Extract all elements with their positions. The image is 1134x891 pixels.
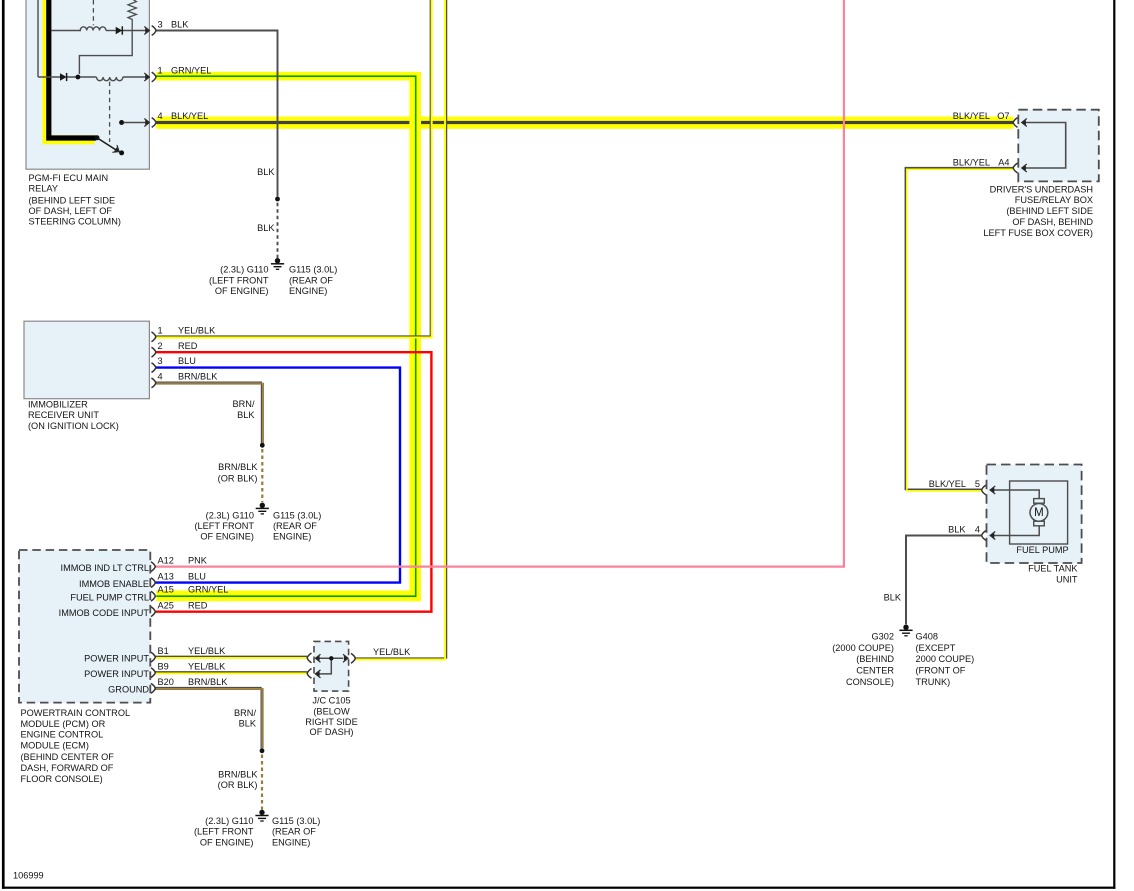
svg-text:(REAR OF: (REAR OF — [273, 521, 317, 531]
svg-text:BRN/BLK: BRN/BLK — [218, 462, 258, 472]
svg-text:MODULE (ECM): MODULE (ECM) — [21, 741, 89, 751]
svg-text:A12: A12 — [158, 555, 174, 565]
immobilizer pin 4 label — [158, 372, 219, 382]
svg-text:BLK: BLK — [171, 20, 189, 30]
immobilizer pin 2 connector — [152, 347, 156, 357]
svg-text:CONSOLE): CONSOLE) — [846, 677, 894, 687]
svg-text:G408: G408 — [916, 632, 938, 642]
PCM pin A12 label — [158, 555, 208, 565]
relay pin 1 label — [158, 66, 212, 76]
svg-text:4: 4 — [975, 524, 980, 534]
PCM pin A15 label — [158, 585, 229, 595]
wire RED: immobilizer pin 2 to PCM A25 — [155, 352, 431, 612]
immobilizer pin 2 label — [158, 341, 198, 351]
diode D1 (relay top) — [116, 26, 123, 34]
coil L2 (relay lower coil) — [97, 77, 123, 81]
svg-text:FUEL TANK: FUEL TANK — [1028, 564, 1078, 574]
junction node on immobilizer BRN/BLK — [260, 443, 265, 448]
relay name label — [29, 173, 121, 227]
immobilizer pin 1 connector — [152, 332, 156, 342]
svg-text:G115 (3.0L): G115 (3.0L) — [289, 265, 337, 275]
svg-text:G115 (3.0L): G115 (3.0L) — [272, 816, 320, 826]
diagram number label — [13, 871, 44, 881]
svg-text:BLU: BLU — [178, 356, 196, 366]
svg-text:STEERING COLUMN): STEERING COLUMN) — [29, 217, 121, 227]
svg-text:(EXCEPT: (EXCEPT — [916, 643, 956, 653]
PCM pin B1 label — [158, 646, 227, 656]
wire BLK: fuel pump pin 4 down to ground G302/G408 — [906, 536, 981, 625]
svg-text:(LEFT FRONT: (LEFT FRONT — [209, 275, 269, 285]
ground label G302 — [832, 632, 894, 687]
svg-text:106999: 106999 — [13, 871, 44, 881]
wire label BRN/BLK (OR BLK) (PCM) — [218, 769, 259, 790]
PCM pin A13 label — [158, 571, 206, 581]
fuel pump pin 4 label — [948, 524, 980, 534]
svg-text:(BEHIND LEFT SIDE: (BEHIND LEFT SIDE — [29, 196, 116, 206]
PCM pin B9 label — [158, 661, 227, 671]
svg-text:POWER INPUT: POWER INPUT — [84, 669, 149, 679]
immobilizer name label — [28, 400, 119, 431]
svg-text:(BEHIND CENTER OF: (BEHIND CENTER OF — [21, 752, 115, 762]
driver's underdash fuse/relay box (dashed) — [1018, 110, 1099, 182]
svg-text:1: 1 — [158, 66, 163, 76]
svg-text:(LEFT FRONT: (LEFT FRONT — [194, 521, 254, 531]
fuse box internal wire — [1023, 123, 1066, 169]
svg-text:4: 4 — [158, 372, 163, 382]
wire BLU: immobilizer pin 3 to PCM A13 — [155, 368, 400, 583]
dashed armature link (top coil) — [92, 0, 94, 25]
svg-text:BLK/YEL: BLK/YEL — [953, 111, 990, 121]
svg-text:OF ENGINE): OF ENGINE) — [200, 532, 254, 542]
svg-text:CENTER: CENTER — [856, 666, 894, 676]
fuel pump pin 4 connector and arrow — [982, 531, 996, 541]
wire BLK: relay pin 3 down to junction — [156, 31, 278, 197]
wire label YEL/BLK (right of C105) — [373, 647, 411, 657]
svg-text:TRUNK): TRUNK) — [916, 677, 951, 687]
svg-text:(ON IGNITION LOCK): (ON IGNITION LOCK) — [28, 421, 119, 431]
ground label G110 (immobilizer) — [194, 510, 254, 541]
svg-text:RIGHT SIDE: RIGHT SIDE — [305, 717, 357, 727]
svg-text:BLK/YEL: BLK/YEL — [929, 479, 966, 489]
fuel pump motor M — [990, 490, 1048, 536]
ground label G115 (PCM) — [272, 816, 320, 848]
svg-text:A25: A25 — [158, 601, 174, 611]
wire YEL/BLK: immobilizer pin 1 up to top of page — [156, 0, 432, 338]
wire label BRN/BLK (immobilizer, split) — [233, 399, 256, 420]
svg-text:(LEFT FRONT: (LEFT FRONT — [194, 827, 254, 837]
PCM pin B1 connector — [151, 652, 155, 662]
immobilizer pin 1 label — [158, 325, 217, 335]
ground label G110 (relay) — [209, 265, 269, 296]
svg-text:RED: RED — [188, 601, 208, 611]
PCM pin A13 connector — [151, 578, 155, 588]
svg-text:B1: B1 — [158, 646, 169, 656]
svg-text:UNIT: UNIT — [1056, 575, 1078, 585]
svg-text:A15: A15 — [158, 585, 174, 595]
wire label BLK (upper) — [257, 167, 275, 177]
resistor (relay, top, cut off) — [128, 0, 136, 31]
wire label BLK (fuel pump) — [884, 592, 902, 602]
svg-text:OF DASH): OF DASH) — [310, 727, 354, 737]
relay pin 3 arrow and connector — [144, 26, 156, 36]
svg-text:GRN/YEL: GRN/YEL — [188, 585, 228, 595]
wire BLK dashed segment to ground G110/G115 — [277, 203, 279, 258]
svg-text:4: 4 — [158, 111, 163, 121]
ground G302/G408 (fuel pump BLK) — [899, 625, 912, 636]
PCM pin A15 connector — [151, 591, 155, 601]
PCM pin function labels — [59, 563, 150, 695]
svg-text:(2.3L) G110: (2.3L) G110 — [220, 265, 268, 275]
relay pin 3 label — [158, 20, 190, 30]
svg-text:BRN/BLK: BRN/BLK — [218, 769, 258, 779]
fuel pump pin 5 connector and arrow — [982, 485, 996, 495]
J/C C105 internal wires and junction — [315, 656, 343, 674]
svg-text:ENGINE): ENGINE) — [289, 286, 327, 296]
svg-text:A13: A13 — [158, 571, 174, 581]
svg-text:(OR BLK): (OR BLK) — [218, 780, 258, 790]
svg-text:BRN/: BRN/ — [234, 708, 256, 718]
svg-text:DASH, FORWARD OF: DASH, FORWARD OF — [21, 763, 114, 773]
wire BRN/BLK: immobilizer pin 4 down to junction — [155, 382, 263, 444]
svg-text:RELAY: RELAY — [29, 184, 58, 194]
svg-text:OF ENGINE): OF ENGINE) — [215, 286, 269, 296]
wire relay pin3 line — [52, 30, 146, 32]
svg-text:2: 2 — [158, 341, 163, 351]
svg-text:DRIVER'S UNDERDASH: DRIVER'S UNDERDASH — [990, 184, 1093, 194]
ground G110/G115 (immobilizer BRN/BLK) — [256, 503, 269, 514]
svg-text:FUEL PUMP CTRL: FUEL PUMP CTRL — [70, 593, 149, 603]
PCM pin A12 connector — [151, 562, 155, 572]
diode D2 (relay lower) — [60, 73, 67, 81]
svg-text:GROUND: GROUND — [108, 685, 149, 695]
svg-text:RED: RED — [178, 341, 198, 351]
ground label G115 (relay) — [289, 265, 337, 296]
svg-text:M: M — [1034, 507, 1044, 519]
PCM pin B20 connector — [151, 683, 155, 693]
wire label BLK (lower) — [257, 223, 275, 233]
ground G110/G115 (relay BLK) — [271, 258, 284, 269]
svg-text:POWERTRAIN CONTROL: POWERTRAIN CONTROL — [21, 708, 131, 718]
svg-text:OF ENGINE): OF ENGINE) — [200, 838, 254, 848]
svg-text:3: 3 — [158, 356, 163, 366]
svg-text:(OR BLK): (OR BLK) — [218, 474, 258, 484]
junction node on relay BLK — [275, 197, 280, 202]
ground G110/G115 (PCM BRN/BLK) — [255, 810, 268, 821]
svg-text:OF DASH, LEFT OF: OF DASH, LEFT OF — [29, 206, 113, 216]
wire BRN/BLK dashed segment to ground G110/G115 (lower) — [261, 755, 263, 810]
svg-text:BLU: BLU — [188, 571, 206, 581]
junction node on PCM BRN/BLK — [260, 748, 265, 753]
wire relay pin1 line — [38, 76, 145, 78]
fuel pump box — [1010, 481, 1068, 544]
fuse box name label — [983, 184, 1093, 238]
relay switch S1 — [95, 120, 146, 155]
wire label BRN/BLK (PCM, split) — [234, 708, 257, 728]
PCM/ECM box (dashed) — [19, 550, 150, 703]
svg-text:POWER INPUT: POWER INPUT — [84, 653, 149, 663]
J/C C105 right pin connector and arrow — [343, 653, 355, 663]
svg-text:IMMOB ENABLE: IMMOB ENABLE — [79, 579, 149, 589]
svg-text:(2.3L) G110: (2.3L) G110 — [206, 510, 254, 520]
svg-text:B20: B20 — [158, 677, 174, 687]
svg-text:B9: B9 — [158, 661, 169, 671]
svg-text:ENGINE CONTROL: ENGINE CONTROL — [21, 730, 104, 740]
fuse box pin A4 label — [953, 158, 1010, 168]
svg-text:5: 5 — [975, 479, 980, 489]
PCM pin A25 connector — [151, 607, 155, 617]
dashed armature link (lower coil) — [109, 82, 111, 142]
svg-text:YEL/BLK: YEL/BLK — [188, 646, 226, 656]
junction node on relay pin1 line — [76, 75, 81, 80]
ground label G110 (PCM) — [194, 816, 254, 848]
svg-text:(BELOW: (BELOW — [313, 706, 350, 716]
wire BLK/YEL thick inside relay — [47, 0, 96, 140]
ground label G115 (immobilizer) — [273, 510, 321, 541]
svg-text:YEL/BLK: YEL/BLK — [178, 325, 216, 335]
J/C C105 left pin (B1) connector and arrow — [307, 653, 320, 663]
svg-text:(FRONT OF: (FRONT OF — [916, 666, 966, 676]
immobilizer receiver unit box — [24, 321, 149, 399]
relay pin 1 arrow and connector — [144, 72, 156, 82]
relay box PGM-FI ECU MAIN RELAY — [26, 0, 149, 169]
PCM pin B9 connector — [151, 668, 155, 678]
svg-text:(BEHIND LEFT SIDE: (BEHIND LEFT SIDE — [1006, 206, 1093, 216]
svg-text:RECEIVER UNIT: RECEIVER UNIT — [28, 410, 99, 420]
svg-text:(2.3L) G110: (2.3L) G110 — [205, 816, 253, 826]
svg-text:IMMOB IND LT CTRL: IMMOB IND LT CTRL — [61, 563, 149, 573]
svg-text:2000 COUPE): 2000 COUPE) — [916, 654, 975, 664]
svg-text:O7: O7 — [997, 111, 1009, 121]
svg-text:BLK: BLK — [257, 223, 275, 233]
svg-text:G302: G302 — [872, 632, 894, 642]
wire BLK/YEL: fuse box A4 to fuel pump pin 5 — [905, 168, 1013, 491]
PCM pin A25 label — [158, 601, 208, 611]
wire label BRN/BLK (OR BLK) (immobilizer) — [218, 462, 259, 483]
svg-text:(REAR OF: (REAR OF — [272, 827, 316, 837]
relay pin 4 arrow and connector — [144, 118, 156, 128]
immobilizer pin 3 label — [158, 356, 196, 366]
wire PNK: PCM A12 to top of page — [155, 0, 844, 567]
svg-text:G115 (3.0L): G115 (3.0L) — [273, 510, 321, 520]
svg-text:GRN/YEL: GRN/YEL — [171, 66, 211, 76]
fuel pump pin 5 label — [929, 479, 980, 489]
wire BRN/BLK dashed segment to ground G110/G115 — [261, 449, 263, 502]
svg-text:PGM-FI ECU MAIN: PGM-FI ECU MAIN — [29, 173, 109, 183]
PCM name label — [21, 708, 131, 784]
svg-text:MODULE (PCM) OR: MODULE (PCM) OR — [21, 719, 106, 729]
fuel pump label — [1016, 545, 1068, 555]
svg-text:(2000 COUPE): (2000 COUPE) — [832, 643, 894, 653]
svg-text:BRN/: BRN/ — [233, 399, 255, 409]
svg-text:FUEL PUMP: FUEL PUMP — [1016, 545, 1068, 555]
svg-text:ENGINE): ENGINE) — [272, 838, 310, 848]
J/C C105 left pin (B9) connector and arrow — [307, 669, 320, 679]
svg-text:BLK/YEL: BLK/YEL — [953, 158, 990, 168]
svg-text:BLK: BLK — [237, 410, 255, 420]
svg-text:BLK: BLK — [257, 167, 275, 177]
svg-text:YEL/BLK: YEL/BLK — [373, 647, 411, 657]
svg-text:A4: A4 — [998, 158, 1009, 168]
svg-text:3: 3 — [158, 20, 163, 30]
wire GRN/YEL: relay pin 1 to PCM A15 — [156, 72, 421, 601]
svg-text:BRN/BLK: BRN/BLK — [178, 372, 218, 382]
svg-text:BLK/YEL: BLK/YEL — [171, 111, 208, 121]
wire YEL/BLK: top of page down to J/C C105 right pin — [355, 0, 446, 660]
svg-text:YEL/BLK: YEL/BLK — [188, 661, 226, 671]
fuse box pin A4 connector and arrow — [1013, 163, 1027, 173]
wire jog from pin3 line to pin1 line — [79, 31, 132, 75]
fuse box pin O7 label — [953, 111, 1010, 121]
relay pin 4 label — [158, 111, 209, 121]
svg-text:J/C C105: J/C C105 — [312, 696, 350, 706]
svg-text:LEFT FUSE BOX COVER): LEFT FUSE BOX COVER) — [983, 228, 1093, 238]
fuel tank unit label — [1028, 564, 1078, 585]
wire YEL/BLK: PCM B9 to J/C C105 — [155, 672, 307, 674]
svg-text:ENGINE): ENGINE) — [273, 532, 311, 542]
svg-text:FLOOR CONSOLE): FLOOR CONSOLE) — [21, 774, 103, 784]
svg-text:IMMOB CODE INPUT: IMMOB CODE INPUT — [59, 608, 150, 618]
wire YEL/BLK: PCM B1 to J/C C105 — [155, 656, 307, 658]
svg-text:1: 1 — [158, 325, 163, 335]
ground label G408 — [916, 632, 975, 687]
svg-text:IMMOBILIZER: IMMOBILIZER — [28, 400, 88, 410]
svg-text:OF DASH, BEHIND: OF DASH, BEHIND — [1012, 217, 1093, 227]
svg-text:BLK: BLK — [948, 524, 966, 534]
wire BLK/YEL thick: relay pin 4 to fuse box O7 — [156, 117, 1013, 129]
svg-text:BLK: BLK — [239, 718, 257, 728]
svg-text:BRN/BLK: BRN/BLK — [188, 677, 228, 687]
fuel tank unit box (dashed) — [987, 465, 1082, 564]
svg-text:PNK: PNK — [188, 555, 208, 565]
immobilizer pin 4 connector — [152, 378, 156, 388]
svg-text:BLK: BLK — [884, 592, 902, 602]
J/C C105 label — [305, 696, 357, 738]
PCM pin B20 label — [158, 677, 229, 687]
junction connector C105 box (dashed) — [314, 641, 349, 691]
wire relay internal feed (left vertical) — [37, 0, 39, 77]
svg-text:FUSE/RELAY BOX: FUSE/RELAY BOX — [1015, 195, 1093, 205]
immobilizer pin 3 connector — [152, 363, 156, 373]
svg-text:(REAR OF: (REAR OF — [289, 275, 333, 285]
svg-text:(BEHIND: (BEHIND — [856, 654, 894, 664]
coil L1 (relay top coil) — [80, 27, 106, 31]
wire BRN/BLK: PCM B20 down to junction — [155, 688, 263, 749]
fuse box pin O7 connector and arrow — [1013, 118, 1027, 128]
